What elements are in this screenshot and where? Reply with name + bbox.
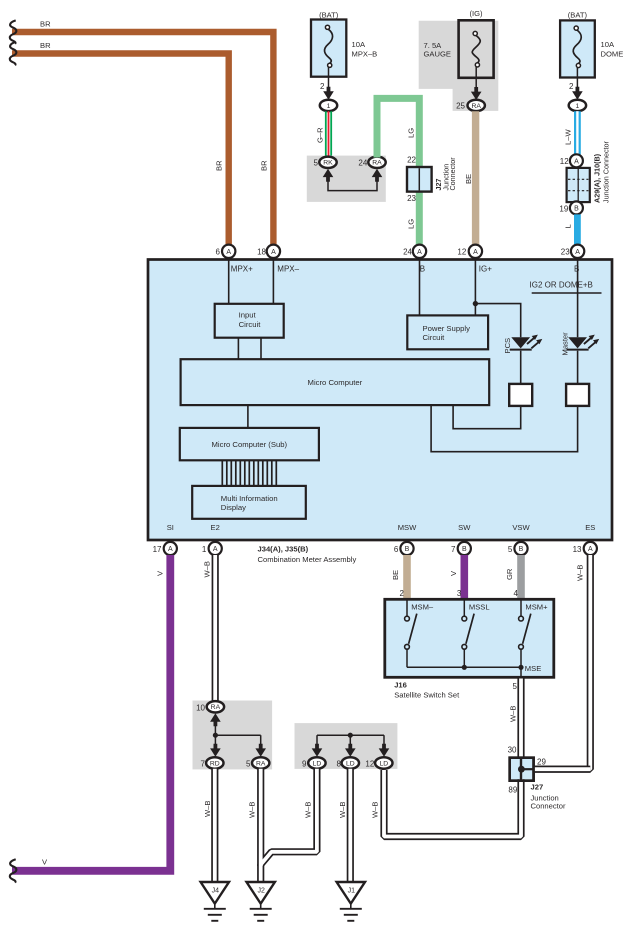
svg-text:MSW: MSW (398, 523, 417, 532)
connector 1 oval (DOME) (569, 100, 586, 111)
svg-text:ES: ES (585, 523, 595, 532)
svg-text:A: A (226, 249, 231, 256)
svg-text:Combination Meter Assembly: Combination Meter Assembly (258, 555, 357, 564)
svg-text:7: 7 (451, 545, 456, 554)
svg-text:B: B (420, 264, 425, 273)
wire BR to MPX+ (pin 6) (12, 54, 229, 245)
wire micro computer to Master resistor (431, 405, 577, 452)
wire W-B 5RA to J2 (257, 769, 264, 882)
wire IG+ to power supply (474, 258, 476, 315)
svg-text:2: 2 (569, 82, 574, 91)
svg-text:G–R: G–R (316, 127, 325, 143)
gray panel LD LD LD (295, 723, 398, 769)
wire W-B 8LD to J1 (347, 769, 354, 882)
junction dot E2 split (213, 733, 218, 738)
wire W-B from J16 pin5 to J27 (517, 679, 524, 758)
wire V from SI (12, 555, 170, 871)
svg-text:LG: LG (406, 128, 415, 138)
svg-text:5: 5 (246, 759, 251, 768)
arrow into 7RD (210, 744, 221, 757)
wire input circuit to micro computer x2 (237, 338, 239, 360)
svg-text:2: 2 (400, 589, 405, 598)
connector 1 oval (MPX-B) (320, 100, 337, 111)
wire L to pin 23A (574, 214, 581, 244)
svg-text:A: A (574, 158, 579, 165)
svg-text:LD: LD (313, 760, 322, 767)
svg-text:12: 12 (560, 157, 569, 166)
svg-text:B: B (405, 546, 410, 553)
svg-text:6: 6 (216, 248, 221, 257)
svg-text:4: 4 (514, 589, 519, 598)
wire V from SW to J16 (460, 555, 468, 599)
svg-text:RK: RK (323, 160, 333, 167)
svg-text:5: 5 (513, 682, 518, 691)
svg-text:MPX+: MPX+ (231, 264, 253, 273)
svg-text:E2: E2 (211, 523, 220, 532)
wire LD bus (317, 734, 384, 736)
svg-text:B: B (574, 264, 579, 273)
connector RK oval (319, 157, 336, 168)
svg-text:J4: J4 (212, 887, 220, 894)
input circuit block (215, 304, 284, 338)
wire W-B from J27 pin 89 to 12LD (384, 770, 521, 837)
bus hatch sub to display (221, 460, 223, 486)
svg-text:Circuit: Circuit (423, 333, 446, 342)
wire W-B from ES to J27 (534, 555, 591, 769)
junction connector J27 (bottom) border (510, 758, 534, 781)
svg-text:1: 1 (576, 103, 580, 110)
svg-text:W–B: W–B (248, 802, 257, 818)
svg-text:LD: LD (379, 760, 388, 767)
wire micro computer to sub (247, 405, 249, 428)
svg-text:RA: RA (372, 160, 382, 167)
wire LG from RA24 to pin 24A via J27 (377, 98, 419, 244)
junction dot MSSL (462, 665, 467, 670)
junction dot IG+ (473, 301, 478, 306)
svg-text:BR: BR (40, 20, 51, 29)
svg-text:(IG): (IG) (469, 9, 483, 18)
svg-text:VSW: VSW (512, 523, 530, 532)
arrow into 12LD (379, 744, 390, 757)
svg-text:B: B (574, 205, 579, 212)
connector RA oval (5) (252, 757, 269, 768)
gray panel GAUGE (419, 21, 499, 111)
wire MSE to box edge (520, 667, 522, 677)
svg-text:Multi Information: Multi Information (221, 494, 278, 503)
svg-text:MSM+: MSM+ (525, 602, 548, 611)
svg-text:12: 12 (365, 759, 374, 768)
svg-text:BR: BR (215, 160, 224, 171)
wire B to power supply (419, 258, 421, 315)
junction dot LD bus (348, 733, 353, 738)
wire junction to 5RA branch (215, 734, 260, 736)
arrow into 25RA (471, 87, 482, 100)
svg-text:A: A (168, 546, 173, 553)
connector RA oval (25) (468, 100, 485, 111)
wire IG+ branch to PCS LED (475, 304, 520, 338)
svg-text:A29(A), J10(B): A29(A), J10(B) (593, 153, 602, 203)
svg-text:V: V (155, 570, 164, 576)
junction connector J27 (top) box (407, 167, 432, 192)
wire BR to MPX- (pin 18) (12, 32, 273, 245)
wire MSE bus (407, 666, 521, 668)
svg-text:7: 7 (201, 759, 206, 768)
svg-text:BE: BE (391, 570, 400, 580)
connector RA oval (10) (207, 701, 224, 712)
svg-text:A: A (575, 249, 580, 256)
svg-text:MSM–: MSM– (411, 602, 434, 611)
wire GR from VSW to J16 (517, 555, 525, 599)
svg-text:A: A (417, 249, 422, 256)
svg-text:W–B: W–B (371, 802, 380, 818)
svg-text:Junction Connector: Junction Connector (602, 140, 611, 203)
connector RA oval (24) (368, 157, 385, 168)
wire B23 to Master LED (577, 258, 579, 337)
fuse 10A DOME box (560, 20, 595, 77)
svg-text:9: 9 (302, 759, 307, 768)
svg-text:Connector: Connector (448, 157, 457, 191)
svg-text:V: V (449, 570, 458, 576)
wire MPX- to input circuit (272, 258, 274, 304)
svg-text:RA: RA (211, 704, 221, 711)
svg-text:MPX–: MPX– (277, 264, 299, 273)
svg-text:RA: RA (256, 760, 266, 767)
svg-text:1: 1 (327, 103, 331, 110)
junction dot MSE (518, 665, 523, 670)
svg-text:(BAT): (BAT) (319, 11, 339, 20)
svg-text:J34(A), J35(B): J34(A), J35(B) (258, 545, 309, 554)
arrow into 5RA (255, 744, 266, 757)
svg-text:17: 17 (153, 545, 162, 554)
gray panel 5RK 24RA (307, 156, 386, 202)
fuse 10A MPX-B box (311, 20, 346, 77)
svg-text:89: 89 (508, 785, 517, 794)
svg-text:L–W: L–W (563, 129, 572, 145)
svg-text:12: 12 (457, 248, 466, 257)
svg-text:24: 24 (403, 248, 412, 257)
svg-text:1: 1 (202, 545, 207, 554)
svg-text:A: A (271, 249, 276, 256)
svg-text:MSE: MSE (525, 664, 541, 673)
svg-text:J2: J2 (257, 887, 265, 894)
svg-text:MPX–B: MPX–B (352, 50, 378, 59)
svg-text:19: 19 (559, 204, 568, 213)
wire continuation brace top 1 (10, 20, 17, 43)
svg-text:Input: Input (239, 311, 257, 320)
svg-text:W–B: W–B (575, 565, 584, 581)
LED PCS (511, 337, 530, 348)
svg-text:J27: J27 (531, 783, 544, 792)
svg-text:Display: Display (221, 503, 246, 512)
svg-text:IG+: IG+ (479, 264, 492, 273)
resistor box PCS (509, 384, 532, 406)
svg-text:A: A (588, 546, 593, 553)
svg-text:LG: LG (407, 219, 416, 229)
wire W-B 7RD to J4 (211, 769, 218, 882)
wire fuse GAUGE to 25RA (475, 67, 477, 92)
fuse GAUGE symbol (473, 31, 477, 35)
svg-text:30: 30 (508, 746, 517, 755)
svg-text:LD: LD (346, 760, 355, 767)
wire W-B ES to J27 pin 29 (534, 766, 591, 773)
svg-text:J1: J1 (348, 887, 356, 894)
svg-text:MSSL: MSSL (469, 602, 490, 611)
junction connector J27 (bottom) box (510, 758, 534, 781)
svg-text:Power Supply: Power Supply (423, 324, 471, 333)
svg-text:GAUGE: GAUGE (424, 50, 451, 59)
wire L-W (574, 111, 581, 154)
svg-text:6: 6 (394, 545, 399, 554)
gray panel RA RD RA (193, 701, 273, 770)
svg-text:25: 25 (456, 101, 465, 110)
svg-text:Micro Computer (Sub): Micro Computer (Sub) (211, 440, 287, 449)
svg-text:Master: Master (560, 332, 569, 356)
arrow into 10RA from below (210, 713, 221, 726)
satellite switch set J16 box (385, 599, 554, 677)
arrow into connector 1 (DOME) (572, 87, 583, 100)
switch MSSL (463, 601, 465, 617)
connector A circle (12) (570, 154, 583, 167)
arrow into RK (323, 169, 334, 182)
svg-text:RD: RD (210, 760, 220, 767)
svg-text:(BAT): (BAT) (568, 11, 588, 20)
wire BE from MSW to J16 (403, 555, 411, 599)
svg-text:B: B (462, 546, 467, 553)
connector LD oval (9) (308, 757, 325, 768)
svg-text:10A: 10A (601, 40, 615, 49)
LED Master (568, 337, 587, 348)
svg-text:W–B: W–B (509, 706, 518, 722)
svg-text:W–B: W–B (202, 561, 211, 577)
arrow into 9LD (312, 744, 323, 757)
wire link RK-RA (328, 181, 377, 191)
arrow into 8LD (345, 744, 356, 757)
connector LD oval (8) (342, 757, 359, 768)
svg-text:GR: GR (505, 568, 514, 580)
wire inside J27 vertical (520, 758, 522, 781)
svg-text:J16: J16 (394, 680, 407, 689)
arrow into connector 1 (MPX-B) (323, 87, 334, 100)
svg-text:A: A (473, 249, 478, 256)
wire MPX+ to input circuit (228, 258, 230, 304)
switch MSM+ (520, 601, 522, 617)
arrow into RA24 (372, 169, 383, 182)
svg-text:RA: RA (471, 103, 481, 110)
fuse 10A MPX-B symbol (325, 25, 329, 29)
ground J1 (337, 882, 365, 904)
wire W-B 9LD merging to J2 (261, 769, 317, 866)
svg-text:22: 22 (407, 156, 416, 165)
svg-text:PCS: PCS (503, 338, 512, 354)
svg-text:SI: SI (167, 523, 174, 532)
svg-text:Connector: Connector (531, 802, 567, 811)
svg-text:5: 5 (314, 159, 319, 168)
svg-text:23: 23 (407, 194, 416, 203)
svg-text:13: 13 (573, 545, 582, 554)
wire 10RA to junction (214, 726, 216, 735)
svg-text:2: 2 (320, 82, 325, 91)
svg-text:Circuit: Circuit (239, 320, 262, 329)
svg-text:L: L (563, 224, 572, 228)
svg-text:DOME: DOME (601, 50, 624, 59)
svg-text:B: B (519, 546, 524, 553)
svg-text:5: 5 (508, 545, 513, 554)
ground J2 (247, 882, 275, 904)
svg-text:29: 29 (537, 757, 546, 766)
connector RD oval (7) (206, 757, 223, 768)
svg-text:BR: BR (260, 160, 269, 171)
wire G-R (325, 111, 327, 157)
wire fuse DOME to connector 1 (576, 67, 578, 91)
svg-text:A: A (213, 546, 218, 553)
connector LD oval (12) (375, 757, 392, 768)
junction dot J27 (518, 766, 525, 773)
svg-text:BE: BE (464, 174, 473, 184)
svg-text:24: 24 (358, 159, 367, 168)
combination meter assembly box J34/J35 (148, 260, 612, 541)
svg-text:23: 23 (561, 248, 570, 257)
svg-text:IG2 OR DOME+B: IG2 OR DOME+B (530, 280, 593, 289)
svg-text:3: 3 (457, 589, 462, 598)
connector B circle (19) (570, 201, 583, 214)
resistor box Master (566, 384, 589, 406)
wire fuse MPX-B to connector 1 (328, 67, 330, 91)
multi information display block (192, 486, 306, 519)
switch MSM- (406, 601, 408, 617)
wire continuation brace top 2 (10, 42, 17, 65)
fuse 7.5A GAUGE box (459, 20, 494, 78)
svg-text:10: 10 (196, 703, 205, 712)
svg-text:BR: BR (40, 41, 51, 50)
svg-text:Micro Computer: Micro Computer (308, 378, 363, 387)
wire BE to pin 12A (472, 111, 479, 245)
wire micro computer to PCS resistor (453, 405, 521, 429)
ground J4 (201, 882, 229, 904)
fuse DOME symbol (574, 26, 578, 30)
junction connector A29/J10 box (567, 168, 590, 202)
micro computer block (181, 359, 490, 405)
svg-text:W–B: W–B (338, 802, 347, 818)
wire Master LED to resistor (577, 351, 579, 384)
micro computer sub block (180, 428, 319, 460)
svg-text:V: V (42, 858, 48, 867)
svg-text:18: 18 (257, 248, 266, 257)
wire inside J27 to pin 29 (521, 768, 533, 770)
power supply circuit block (407, 315, 488, 349)
wire continuation brace bottom (10, 859, 17, 882)
svg-text:10A: 10A (352, 40, 366, 49)
wire W-B from E2 to 10RA (212, 555, 219, 701)
svg-text:Satellite Switch Set: Satellite Switch Set (394, 691, 460, 700)
svg-text:SW: SW (458, 523, 471, 532)
svg-text:W–B: W–B (303, 802, 312, 818)
svg-text:W–B: W–B (203, 801, 212, 817)
wire PCS LED to resistor (520, 351, 522, 384)
